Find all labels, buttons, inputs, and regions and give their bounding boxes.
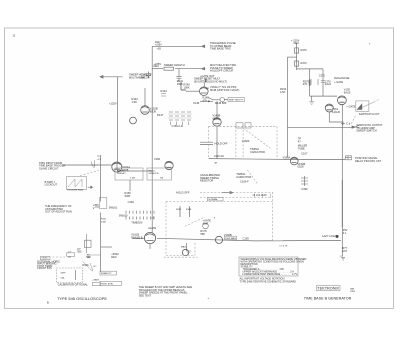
svg-text:12AU6: 12AU6 (332, 110, 340, 114)
svg-text:PHASE B: PHASE B (131, 235, 143, 239)
svg-text:100K: 100K (101, 221, 107, 223)
svg-text:R168: R168 (186, 209, 192, 211)
svg-text:SEE TEXT: SEE TEXT (139, 293, 152, 297)
svg-text:R470: R470 (301, 48, 308, 52)
svg-text:A7K: A7K (342, 249, 347, 253)
svg-text:R144: R144 (161, 89, 168, 93)
svg-text:x1 x10 x100: x1 x10 x100 (253, 193, 268, 197)
svg-text:TRIG LEVEL: TRIG LEVEL (101, 283, 114, 285)
svg-text:R301: R301 (83, 263, 90, 267)
svg-text:C160-F: C160-F (240, 180, 249, 184)
svg-text:SAWTOOTH CKT: SAWTOOTH CKT (359, 112, 380, 116)
svg-text:C d: C d (346, 122, 351, 126)
svg-text:CALIBRATOR OPTIONAL: CALIBRATOR OPTIONAL (58, 283, 89, 287)
svg-text:+225V: +225V (155, 44, 162, 46)
svg-text:TEKTRONIX: TEKTRONIX (317, 287, 339, 291)
svg-text:1M: 1M (160, 178, 163, 180)
svg-text:1.5K: 1.5K (132, 100, 138, 104)
svg-text:+1B: +1B (157, 49, 162, 51)
svg-text:50V: 50V (86, 255, 91, 259)
svg-text:B: B (47, 301, 49, 305)
svg-text:CAPACITOR: CAPACITOR (236, 175, 251, 179)
svg-text:SWP: SWP (125, 194, 131, 198)
svg-text:VIDEO: VIDEO (42, 258, 49, 260)
svg-text:1959: 1959 (350, 291, 356, 293)
svg-text:DEC: DEC (294, 41, 300, 45)
svg-text:6DJ8 (UNITS DLY MULT): 6DJ8 (UNITS DLY MULT) (210, 88, 240, 92)
svg-text:AMP: AMP (203, 221, 209, 225)
svg-text:R160B: R160B (117, 171, 124, 173)
svg-text:2.2M: 2.2M (130, 178, 135, 180)
svg-text:DEC: DEC (154, 64, 160, 68)
svg-text:SWEEP B: SWEEP B (149, 173, 159, 175)
svg-text:PRESET: PRESET (117, 173, 126, 175)
svg-text:6AU5: 6AU5 (344, 90, 351, 94)
svg-text:SWP: SWP (61, 273, 67, 275)
svg-text:SWEEP LENGTH: SWEEP LENGTH (164, 63, 185, 67)
svg-text:LAZY LIGHTS: LAZY LIGHTS (322, 234, 339, 238)
svg-text:C150 A-D: C150 A-D (172, 124, 183, 128)
svg-text:R472: R472 (301, 61, 308, 65)
svg-text:SW160: SW160 (119, 214, 128, 218)
svg-text:HOLDOFF CIRCUIT: HOLDOFF CIRCUIT (210, 69, 234, 73)
svg-text:350: 350 (77, 250, 82, 254)
svg-text:100K: 100K (184, 85, 190, 89)
svg-text:TUBE: TUBE (298, 146, 305, 150)
svg-text:C372: C372 (319, 74, 326, 78)
svg-text:C145: C145 (193, 101, 200, 105)
svg-text:47K: 47K (203, 98, 208, 102)
svg-text:TYPE 545 OSCILLOSCOPE: TYPE 545 OSCILLOSCOPE (57, 297, 108, 301)
svg-text:+GATE: +GATE (148, 226, 157, 230)
svg-text:+ GATE: + GATE (334, 80, 343, 84)
svg-text:TIME/DIV: TIME/DIV (131, 221, 143, 225)
svg-text:LOWER WAVETRAP MIDRANGE . .: LOWER WAVETRAP MIDRANGE . . . . . . . . … (243, 273, 298, 276)
svg-text:HOLD OFF: HOLD OFF (215, 142, 229, 146)
svg-text:TRIGGER RATE: TRIGGER RATE (67, 189, 84, 192)
svg-text:(B GATE HOLDS NO MULT): (B GATE HOLDS NO MULT) (194, 79, 227, 83)
svg-text:R160C: R160C (149, 171, 156, 173)
svg-text:27K: 27K (303, 82, 308, 86)
svg-text:C160F: C160F (242, 139, 250, 143)
svg-text:56K: 56K (200, 232, 205, 236)
svg-text:V: V (93, 206, 95, 210)
svg-text:R146 68K: R146 68K (215, 101, 227, 105)
svg-text:6DJ8: 6DJ8 (297, 164, 304, 168)
svg-text:SWP MAG: SWP MAG (225, 237, 236, 240)
svg-text:C193: C193 (243, 236, 250, 240)
svg-text:6DJ8: 6DJ8 (213, 116, 220, 120)
svg-text:STABILITY: STABILITY (101, 272, 112, 275)
svg-text:6DJ8: 6DJ8 (150, 109, 157, 113)
svg-text:AVALANCHE: AVALANCHE (334, 76, 350, 80)
svg-text:0.1: 0.1 (343, 231, 347, 235)
svg-text:NORMAL: NORMAL (209, 198, 219, 201)
svg-text:SW161: SW161 (109, 206, 118, 210)
svg-text:V193A: V193A (283, 156, 291, 160)
svg-text:TP: TP (206, 87, 210, 91)
svg-text:SLAVE CIRCUIT: SLAVE CIRCUIT (39, 166, 59, 170)
svg-text:TIME BASE B GENERATOR: TIME BASE B GENERATOR (304, 297, 352, 301)
svg-text:+GATE: +GATE (92, 278, 100, 281)
svg-text:V160: V160 (154, 157, 161, 161)
svg-text:R147: R147 (157, 113, 164, 117)
svg-text:MAG: MAG (181, 246, 186, 249)
svg-text:LOCKOUT: LOCKOUT (45, 183, 58, 187)
svg-text:1.5K: 1.5K (280, 90, 286, 94)
svg-text:C? 4.7K: C? 4.7K (279, 245, 287, 247)
svg-text:4H: 4H (214, 163, 217, 165)
svg-text:DEC: DEC (111, 255, 117, 259)
svg-text:R161: R161 (101, 219, 107, 221)
svg-text:C390: C390 (301, 187, 308, 191)
svg-text:FRONT 5X5: FRONT 5X5 (37, 266, 52, 270)
svg-text:RESISTOR: RESISTOR (200, 179, 213, 183)
svg-text:SWEEP SWITCH: SWEEP SWITCH (356, 129, 376, 133)
svg-text:.001: .001 (141, 75, 147, 79)
svg-text:+125V: +125V (109, 102, 117, 106)
svg-text:TIME BASE TRIG: TIME BASE TRIG (210, 47, 231, 51)
svg-text:C160: C160 (128, 200, 135, 204)
svg-text:CAPACITOR: CAPACITOR (250, 150, 265, 154)
svg-text:R167: R167 (176, 209, 182, 211)
svg-text:150K: 150K (177, 82, 183, 86)
svg-text:TYPE 545A TENTATIVE SCHEMAT: TYPE 545A TENTATIVE SCHEMATIC STANDARD (240, 280, 297, 283)
svg-text:V193B: V193B (224, 233, 232, 237)
svg-text:22uH: 22uH (325, 82, 331, 86)
svg-text:OUT OF ADJUST RUN: OUT OF ADJUST RUN (45, 210, 72, 214)
svg-text:SWP TEST PT: SWP TEST PT (229, 100, 244, 102)
svg-text:C167: C167 (301, 152, 308, 156)
svg-text:+ GATE: + GATE (346, 105, 355, 109)
svg-text:L160 4H: L160 4H (214, 154, 224, 158)
svg-text:HOLD OFF: HOLD OFF (176, 191, 190, 195)
svg-text:DELAY PICKOFF CKT: DELAY PICKOFF CKT (355, 159, 382, 163)
